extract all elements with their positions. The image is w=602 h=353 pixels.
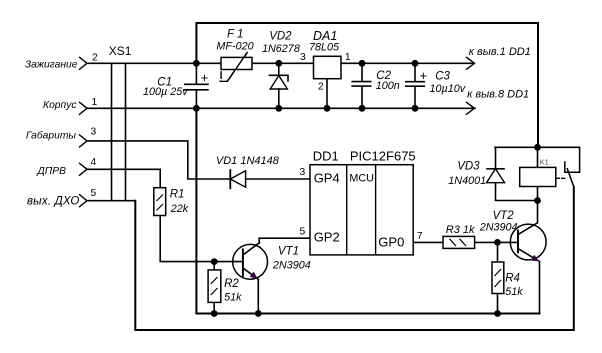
svg-text:VD3: VD3 <box>457 161 480 173</box>
svg-text:Габариты: Габариты <box>26 130 77 142</box>
svg-text:GP4: GP4 <box>314 170 340 185</box>
svg-text:1N4001: 1N4001 <box>448 175 486 187</box>
svg-text:к выв.1 DD1: к выв.1 DD1 <box>469 46 531 58</box>
svg-text:GP0: GP0 <box>378 235 404 250</box>
svg-text:51k: 51k <box>224 292 242 304</box>
svg-text:4: 4 <box>91 157 97 168</box>
svg-text:1: 1 <box>92 97 98 108</box>
svg-text:1N6278: 1N6278 <box>262 43 300 55</box>
svg-text:R3 1k: R3 1k <box>446 224 475 236</box>
svg-text:вых. ДХО: вых. ДХО <box>27 195 80 207</box>
svg-text:MCU: MCU <box>349 173 374 185</box>
svg-text:10µ10v: 10µ10v <box>430 83 466 95</box>
svg-text:5: 5 <box>91 188 97 199</box>
svg-text:2: 2 <box>92 53 98 64</box>
svg-text:100µ 25v: 100µ 25v <box>143 86 188 98</box>
svg-text:ДПРВ: ДПРВ <box>37 166 67 177</box>
svg-text:VD1 1N4148: VD1 1N4148 <box>216 155 280 167</box>
svg-text:K1: K1 <box>540 158 549 167</box>
svg-text:VD2: VD2 <box>269 31 292 43</box>
svg-text:MF-020: MF-020 <box>216 41 253 53</box>
svg-text:51k: 51k <box>505 286 523 298</box>
svg-text:VT1: VT1 <box>278 246 299 258</box>
svg-text:7: 7 <box>417 231 423 242</box>
svg-text:2N3904: 2N3904 <box>272 260 311 272</box>
svg-text:GP2: GP2 <box>314 230 340 245</box>
svg-text:2N3904: 2N3904 <box>479 222 518 234</box>
svg-text:+: + <box>201 70 209 85</box>
svg-text:22k: 22k <box>170 203 189 215</box>
svg-text:R1: R1 <box>170 189 185 201</box>
svg-text:Корпус: Корпус <box>43 100 77 111</box>
svg-text:1: 1 <box>345 52 351 63</box>
svg-text:VT2: VT2 <box>493 210 515 222</box>
svg-text:R2: R2 <box>224 278 239 290</box>
svg-text:R4: R4 <box>505 273 520 285</box>
svg-text:PIC12F675: PIC12F675 <box>350 149 416 164</box>
svg-text:100n: 100n <box>376 80 400 92</box>
svg-text:2: 2 <box>318 82 324 93</box>
svg-text:3: 3 <box>300 52 306 63</box>
svg-text:Зажигание: Зажигание <box>25 60 78 71</box>
svg-text:XS1: XS1 <box>109 44 132 58</box>
svg-text:78L05: 78L05 <box>309 42 340 54</box>
svg-text:3: 3 <box>300 167 306 178</box>
svg-text:+: + <box>420 68 428 83</box>
svg-text:5: 5 <box>300 227 306 238</box>
svg-text:3: 3 <box>91 127 97 138</box>
svg-text:F 1: F 1 <box>227 29 243 41</box>
svg-text:C3: C3 <box>435 71 450 83</box>
svg-text:к выв.8 DD1: к выв.8 DD1 <box>467 89 529 101</box>
svg-text:DD1: DD1 <box>313 149 339 164</box>
